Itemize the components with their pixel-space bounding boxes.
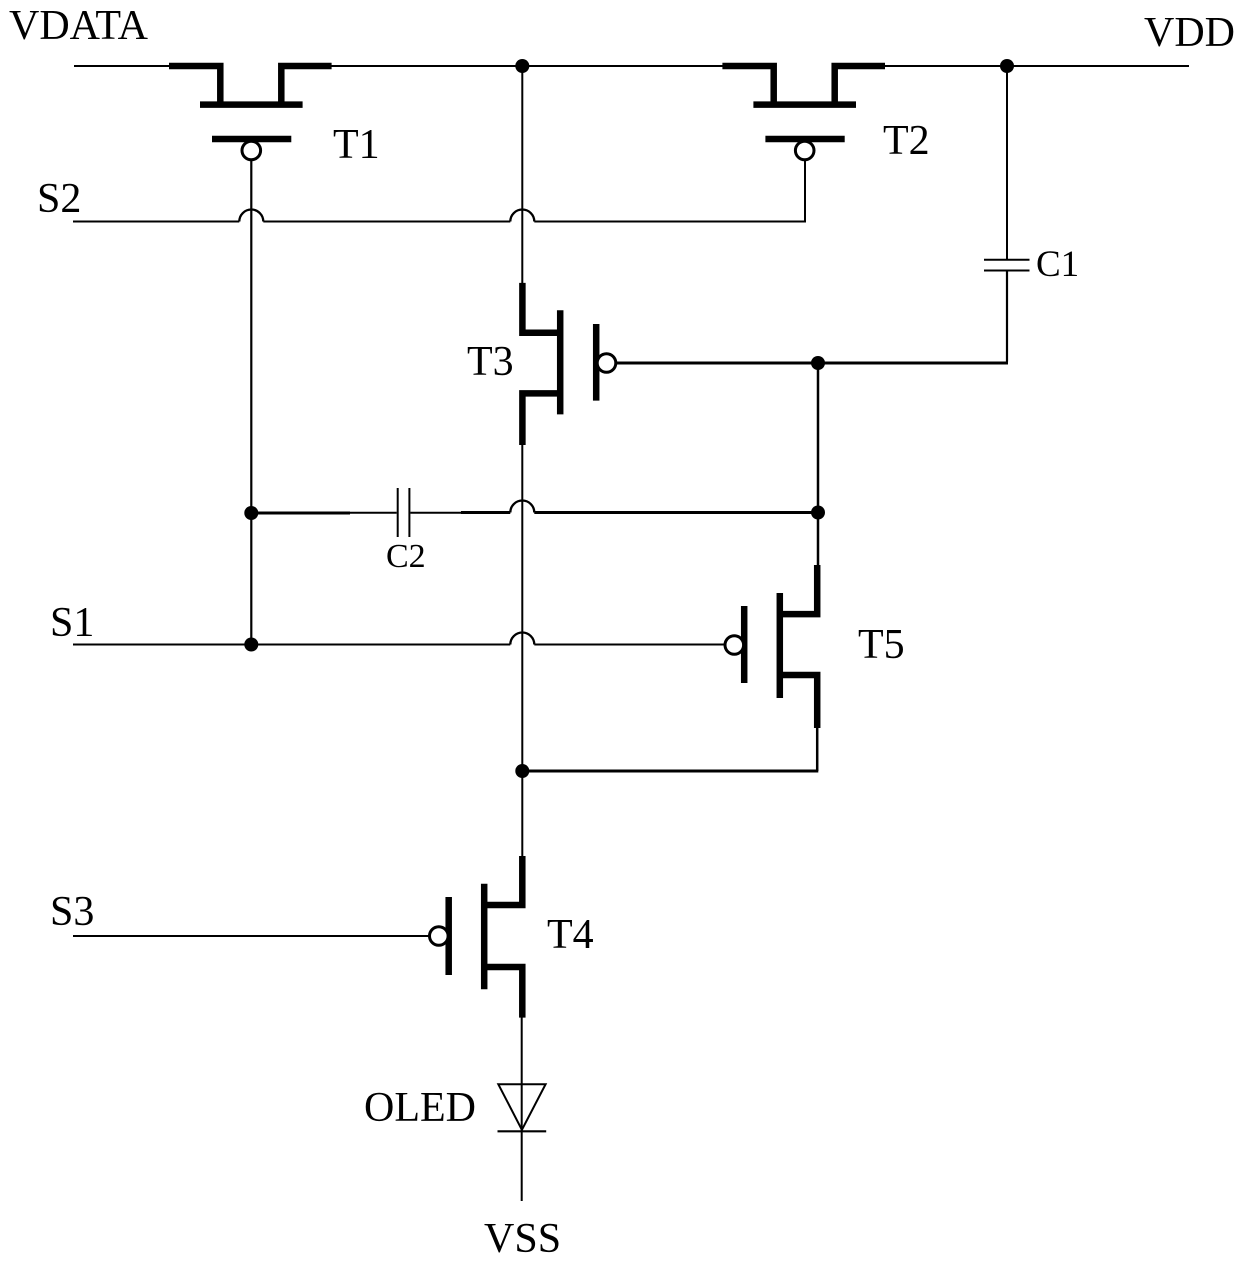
capacitor C1 — [984, 260, 1030, 271]
transistor T1 — [169, 66, 332, 160]
svg-text:OLED: OLED — [364, 1085, 476, 1131]
wire S1 rail — [73, 644, 725, 646]
svg-text:T4: T4 — [547, 912, 594, 958]
junction dot C2 left on T1 gate wire — [244, 506, 258, 520]
wire T3 gate to C1 bottom — [616, 362, 1008, 365]
svg-text:T2: T2 — [883, 118, 930, 164]
capacitor C2 — [398, 488, 410, 537]
transistor T5 — [725, 565, 817, 728]
wire top rail right segment to VDD — [884, 65, 1189, 67]
wire S3 rail to T4 gate — [73, 935, 429, 937]
svg-text:C1: C1 — [1036, 244, 1079, 285]
diode OLED cathode bar — [498, 1130, 547, 1132]
junction dot gate line — [811, 356, 825, 370]
junction dot S1 and T1 gate wire — [244, 638, 258, 652]
transistor T2 — [722, 66, 885, 160]
svg-text:T1: T1 — [333, 122, 380, 168]
wire OLED cathode to VSS — [521, 1131, 523, 1201]
wire top rail VDATA-VDD left segment — [74, 65, 170, 67]
wire hop S1 over center node wire — [510, 633, 534, 645]
wire hop C2 line over center node wire — [510, 501, 534, 513]
wire hop S2 over T1 gate wire — [239, 210, 263, 222]
wire S2 rail — [73, 221, 806, 223]
wire C2 right — [410, 512, 462, 514]
svg-text:S1: S1 — [50, 600, 94, 646]
wire T4 source down to OLED — [521, 1017, 523, 1131]
transistor T4 — [430, 856, 523, 1018]
wire C1 bottom down to T3 gate line — [1006, 271, 1008, 362]
wire T5 source down and left to center node — [816, 727, 819, 771]
svg-text:T3: T3 — [467, 339, 514, 385]
svg-text:S2: S2 — [37, 176, 81, 222]
wire top rail middle segment between T1 and T2 — [331, 65, 724, 67]
junction dot C2 right — [811, 506, 825, 520]
wire center node T3 source down to T4 drain — [521, 444, 523, 857]
junction dot top rail center — [515, 59, 529, 73]
svg-text:T5: T5 — [858, 622, 905, 668]
wire S2 to T2 gate — [804, 161, 806, 223]
wire center node from top rail down to T3 drain — [521, 66, 523, 284]
svg-text:VDATA: VDATA — [9, 3, 149, 49]
svg-text:VSS: VSS — [484, 1216, 561, 1262]
wire node down from gate line to T5 drain — [817, 363, 820, 566]
wire T1 gate down to S1 — [250, 160, 252, 645]
svg-text:VDD: VDD — [1144, 10, 1235, 56]
svg-text:C2: C2 — [386, 538, 426, 575]
transistor T3 — [522, 283, 615, 445]
junction dot center node at T5 source wire — [515, 764, 529, 778]
wire hop S2 over center node wire — [510, 210, 534, 222]
diode OLED triangle — [498, 1084, 545, 1130]
junction dot top rail at VDD/C1 — [1000, 59, 1014, 73]
wire VDD down to C1 — [1006, 66, 1008, 259]
wire C2 left — [251, 512, 350, 515]
svg-text:S3: S3 — [50, 889, 94, 935]
